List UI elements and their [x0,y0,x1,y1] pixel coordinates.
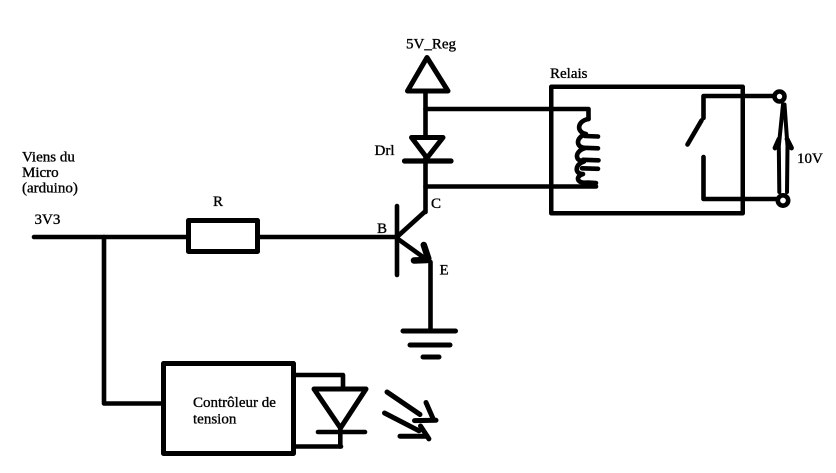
relay coil [577,119,599,183]
resistor R [189,221,258,252]
relay box [551,87,743,214]
svg-text:5V_Reg: 5V_Reg [406,37,456,53]
relay switch [688,96,777,199]
svg-text:Drl: Drl [375,143,395,159]
wire: collector vertical up through diode to power [423,93,428,212]
svg-text:tension: tension [193,412,237,428]
terminal bottom (circle) [778,195,788,205]
voltage controller box [164,364,294,454]
wire: relay coil bottom to collector node [426,184,597,189]
svg-text:3V3: 3V3 [35,212,61,228]
svg-text:(arduino): (arduino) [22,181,78,197]
wire: power node to relay coil (top) [426,109,589,119]
svg-text:C: C [431,196,441,212]
LED light arrow 1 [387,392,436,421]
wire: emitter down to ground [428,262,433,331]
svg-text:Micro: Micro [22,165,59,181]
wire: 3V3 to resistor R [34,235,186,240]
ground [403,331,456,357]
wire: resistor to transistor base [260,235,395,240]
label: Viens du Micro (arduino) [22,150,78,197]
wire: controller to LED anode [296,375,343,388]
svg-text:Contrôleur de: Contrôleur de [193,395,276,411]
svg-text:Viens du: Viens du [22,150,75,166]
power symbol 5V_Reg [408,58,449,92]
svg-text:E: E [440,263,449,279]
svg-text:B: B [377,221,387,237]
svg-text:R: R [213,194,223,210]
LED D1 [314,389,366,447]
LED light arrow 2 [385,413,429,439]
wire: LED cathode back to controller [296,444,341,449]
label Controleur de tension [193,395,276,428]
svg-text:10V: 10V [797,151,823,167]
terminal top (circle) [775,92,785,102]
svg-text:Relais: Relais [550,66,588,82]
transistor Q1 [397,206,428,275]
wire: branch down to voltage controller [104,237,161,404]
voltage arrow 10V [775,105,792,193]
diode Drl [405,138,452,162]
